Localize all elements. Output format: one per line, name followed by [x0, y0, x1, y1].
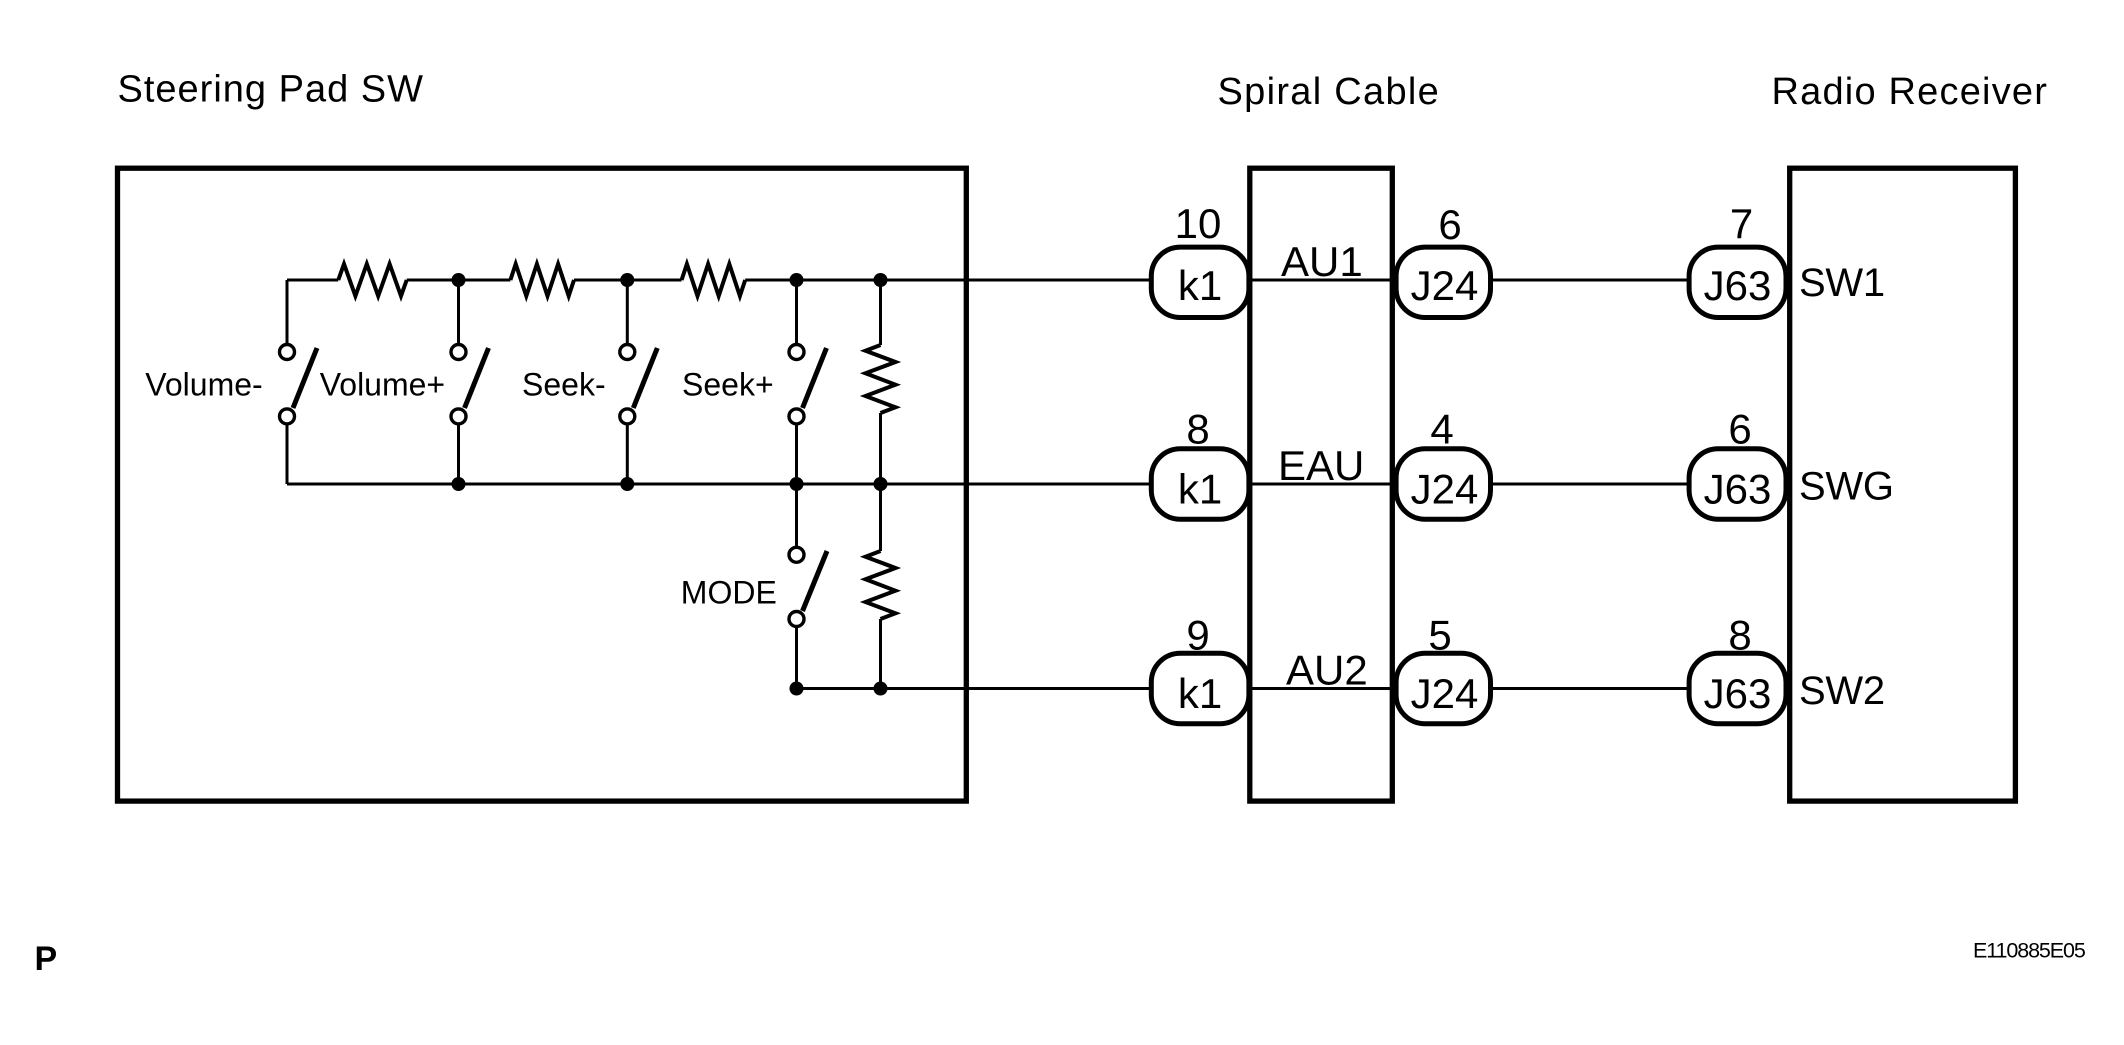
wire: SW4 bottom lead — [795, 425, 798, 484]
svg-text:Seek+: Seek+ — [682, 366, 774, 402]
connector J63 pin 8 — [1689, 653, 1786, 723]
node: EAU x MODE junction — [790, 477, 804, 491]
wire: EAU row main — [287, 483, 1152, 486]
connector J24 pin 6 — [1396, 247, 1490, 317]
svg-text:P: P — [35, 940, 58, 978]
svg-text:AU1: AU1 — [1281, 238, 1363, 285]
box: Radio Receiver — [1790, 168, 2016, 801]
wire: SW2 bottom lead — [457, 425, 460, 484]
wire: SW4 top lead — [795, 280, 798, 343]
wire: MODE top lead — [795, 484, 798, 546]
connector J24 pin 4 — [1396, 449, 1490, 519]
node: EAU x Seek- junction — [620, 477, 634, 491]
svg-text:8: 8 — [1186, 406, 1209, 453]
R5 zigzag — [866, 551, 896, 619]
svg-text:J63: J63 — [1704, 466, 1772, 513]
svg-text:J24: J24 — [1411, 262, 1479, 309]
wire: MODE bottom lead — [795, 628, 798, 689]
svg-text:AU2: AU2 — [1286, 647, 1368, 694]
R4 zigzag — [866, 345, 896, 413]
connector J63 pin 6 — [1689, 449, 1786, 519]
svg-text:E110885E05: E110885E05 — [1973, 939, 2086, 963]
MODE bottom contact circle — [789, 612, 804, 627]
wire: AU2 inside Spiral Cable box — [1249, 687, 1397, 690]
svg-text:5: 5 — [1428, 612, 1451, 659]
wire: SW3 top lead — [626, 280, 629, 343]
SW1 blade — [293, 348, 317, 408]
node: EAU x Volume+ junction — [452, 477, 466, 491]
wire: AU1 row segment 3 — [574, 279, 682, 282]
svg-text:6: 6 — [1728, 406, 1751, 453]
wire: R4 bottom lead — [879, 413, 882, 484]
wire: AU1 row left segment — [287, 279, 338, 282]
wire: EAU row J24 to J63 — [1490, 483, 1690, 486]
wire: SW1 bottom lead — [286, 425, 289, 484]
svg-text:J63: J63 — [1704, 670, 1772, 717]
MODE top contact circle — [789, 547, 804, 562]
box: Spiral Cable — [1250, 168, 1393, 801]
SW3 top contact circle — [620, 345, 635, 360]
MODE blade — [803, 551, 828, 611]
svg-text:Volume+: Volume+ — [320, 366, 445, 402]
svg-text:J63: J63 — [1704, 262, 1772, 309]
wire: AU1 inside Spiral Cable box — [1249, 279, 1397, 282]
resistor R5 (vertical, between EAU and AU2 rows) — [866, 484, 896, 689]
wire: SW3 bottom lead — [626, 425, 629, 484]
resistor R3 (between Seek- and Seek+) — [682, 264, 746, 296]
SW3 blade — [633, 348, 657, 408]
node: AU1 x Seek+ junction — [790, 273, 804, 287]
wire: R4 top lead — [879, 280, 882, 345]
svg-text:6: 6 — [1438, 201, 1461, 248]
resistor R2 (between Volume+ and Seek-) — [510, 264, 574, 296]
resistor R4 (vertical, between AU1 and EAU rows) — [866, 280, 896, 484]
svg-text:k1: k1 — [1178, 262, 1222, 309]
svg-text:4: 4 — [1430, 406, 1453, 453]
switch MODE (SW5) — [789, 484, 827, 689]
node: AU2 x MODE junction — [790, 682, 804, 696]
svg-text:MODE: MODE — [681, 575, 777, 611]
wire: AU2 row main — [797, 687, 1153, 690]
wire: AU1 row J24 to J63 — [1490, 279, 1690, 282]
connector k1 pin 9 — [1151, 653, 1249, 723]
SW2 top contact circle — [451, 345, 466, 360]
node: AU1 x Seek- junction — [620, 273, 634, 287]
SW3 bottom contact circle — [620, 409, 635, 424]
wire: SW1 top lead — [286, 280, 289, 343]
svg-text:k1: k1 — [1178, 466, 1222, 513]
SW2 blade — [465, 348, 489, 408]
switch Seek- (SW3) — [620, 280, 658, 484]
connector J63 pin 7 — [1689, 247, 1786, 317]
switch Seek+ (SW4) — [789, 280, 827, 484]
switch Volume- (SW1) — [280, 280, 318, 484]
switch Volume+ (SW2) — [451, 280, 489, 484]
svg-text:9: 9 — [1186, 612, 1209, 659]
SW1 bottom contact circle — [280, 409, 295, 424]
node: AU2 x R5 junction — [874, 682, 888, 696]
wire: R5 bottom lead — [879, 619, 882, 689]
node: AU1 x R4 junction — [874, 273, 888, 287]
svg-text:Spiral Cable: Spiral Cable — [1218, 71, 1441, 113]
svg-text:J24: J24 — [1411, 670, 1479, 717]
connector J24 pin 5 — [1396, 653, 1490, 723]
wire: SW2 top lead — [457, 280, 460, 343]
wire: AU1 row to connector k1 pin 10 — [745, 279, 1152, 282]
SW2 bottom contact circle — [451, 409, 466, 424]
svg-text:SW1: SW1 — [1799, 261, 1885, 305]
svg-text:Seek-: Seek- — [522, 366, 606, 402]
svg-text:8: 8 — [1728, 612, 1751, 659]
wire: AU1 row segment 2 — [407, 279, 511, 282]
svg-text:7: 7 — [1730, 200, 1753, 247]
svg-text:Radio Receiver: Radio Receiver — [1772, 71, 2049, 113]
box: Steering Pad SW — [118, 168, 967, 801]
connector k1 pin 10 — [1151, 247, 1249, 317]
SW4 top contact circle — [789, 345, 804, 360]
connector k1 pin 8 — [1151, 449, 1249, 519]
SW1 top contact circle — [280, 345, 295, 360]
svg-text:10: 10 — [1175, 200, 1222, 247]
svg-text:Steering Pad SW: Steering Pad SW — [118, 69, 424, 111]
resistor R1 (between Volume- and Volume+) — [338, 264, 406, 296]
node: EAU x R4 junction — [874, 477, 888, 491]
wire: EAU inside Spiral Cable box — [1249, 483, 1397, 486]
svg-text:J24: J24 — [1411, 466, 1479, 513]
wire: R5 top lead — [879, 484, 882, 551]
svg-text:EAU: EAU — [1278, 442, 1364, 489]
SW4 blade — [803, 348, 827, 408]
svg-text:k1: k1 — [1178, 670, 1222, 717]
svg-text:SWG: SWG — [1799, 465, 1894, 509]
wire: AU2 row J24 to J63 — [1490, 687, 1690, 690]
SW4 bottom contact circle — [789, 409, 804, 424]
node: AU1 x Volume+ junction — [452, 273, 466, 287]
svg-text:SW2: SW2 — [1799, 669, 1885, 713]
svg-text:Volume-: Volume- — [145, 366, 262, 402]
